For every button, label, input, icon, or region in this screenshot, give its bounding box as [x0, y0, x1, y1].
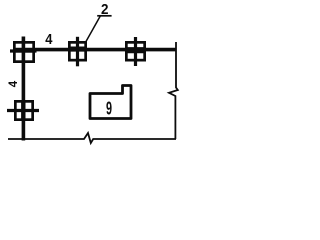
svg-text:9: 9: [106, 98, 112, 118]
wire: right break line with zigzag: [169, 42, 178, 139]
svg-text:2: 2: [101, 2, 109, 18]
column symbol K2 (top-middle): square with centerlines: [69, 37, 86, 67]
callout underline for label 2: [97, 15, 111, 17]
wire: bottom break line with zigzag: [8, 133, 176, 143]
wire: left wall axis line (vertical): [22, 37, 26, 141]
label 4 (top span dimension): [45, 32, 52, 48]
label 2 (callout number): [101, 2, 109, 18]
column symbol K1 (top-left): square with centerlines: [10, 42, 37, 61]
wire: top wall axis line (horizontal): [13, 48, 177, 52]
area outline 9 (stepped rectangle): [90, 86, 131, 119]
svg-text:4: 4: [45, 32, 52, 48]
label 4 (left span dimension, rotated 90): [8, 80, 20, 87]
column symbol K4 (left-middle): square with centerlines: [7, 101, 39, 121]
svg-text:4: 4: [8, 80, 20, 87]
callout leader line to column K2: [86, 16, 100, 42]
column symbol K3 (top-right): square with centerlines: [126, 37, 146, 66]
label 9 (area number): [106, 98, 112, 118]
